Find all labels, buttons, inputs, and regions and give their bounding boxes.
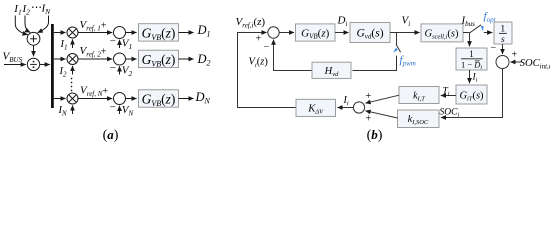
svg-text:Vref, 1+: Vref, 1+ — [80, 19, 107, 33]
wire V2 into summer S2a — [119, 66, 121, 74]
wire I2 into multiplier M2 — [72, 66, 74, 75]
svg-text:−: − — [264, 42, 270, 53]
svg-text:s: s — [501, 35, 505, 45]
svg-text:Di: Di — [337, 15, 348, 29]
svg-text:DN: DN — [195, 90, 211, 106]
bus bar — [51, 24, 54, 108]
wire block GVB2 to D2 — [179, 58, 194, 60]
wire junction down to block invD — [469, 33, 471, 47]
svg-text:⋯: ⋯ — [31, 1, 42, 13]
block kIsoc — [398, 110, 440, 128]
wire Gscell to junction — [463, 32, 470, 34]
block GVB2 — [139, 50, 179, 68]
svg-text:V1: V1 — [122, 38, 132, 52]
wire summer S3a to block GVB3 — [126, 98, 137, 100]
wire Gvd to Gscell — [390, 32, 420, 34]
svg-text:Ti: Ti — [443, 87, 450, 98]
block GVB3 — [139, 90, 179, 108]
svg-text:fpwm: fpwm — [400, 54, 416, 68]
summing junction S3b — [353, 102, 364, 113]
wire Vi branch down to sampler fpwm — [396, 33, 398, 45]
summing junction S3a — [114, 93, 126, 105]
svg-text:Vref, 2+: Vref, 2+ — [80, 45, 107, 59]
svg-text:−: − — [110, 62, 116, 74]
svg-text:Vref, N+: Vref, N+ — [80, 84, 108, 98]
block KdV — [296, 99, 336, 116]
block invD — [456, 48, 487, 71]
wire S3b to block KdV — [338, 107, 354, 109]
wire S2b down and left to block kIsoc — [441, 69, 503, 118]
svg-text:I1: I1 — [13, 3, 21, 16]
wire multiplier M3 to summer S3a — [78, 98, 112, 100]
divider circle — [27, 58, 39, 70]
wire V1 into summer S1a — [119, 40, 121, 48]
wire I1 into multiplier M1 — [72, 39, 74, 48]
block Gvd — [350, 23, 390, 43]
wire kIT to summer S3b — [366, 95, 400, 103]
svg-text:I2: I2 — [59, 66, 68, 79]
block GVB1 — [139, 24, 179, 42]
wire summer S2a to block GVB2 — [126, 58, 137, 60]
wire bus to multiplier row3 — [54, 98, 66, 100]
svg-text:GiT(s): GiT(s) — [459, 91, 484, 103]
wire bus to multiplier row2 — [54, 58, 66, 60]
wire block GVBb to block Gvd — [335, 32, 349, 34]
block Hvd — [312, 62, 351, 78]
svg-text:+: + — [366, 91, 372, 102]
block kIT — [399, 87, 439, 104]
svg-text:V2: V2 — [122, 65, 133, 79]
wire block GVB1 to D1 — [179, 32, 194, 34]
block Gscell — [421, 24, 463, 42]
svg-text:+: + — [256, 34, 262, 45]
summing junction S2b — [496, 56, 509, 69]
summing junction S1b — [268, 27, 279, 38]
svg-text:SOCi: SOCi — [440, 108, 460, 119]
svg-text:Vref,i(z): Vref,i(z) — [236, 16, 266, 30]
svg-text:(b): (b) — [367, 127, 383, 143]
wire I2 to summer — [25, 16, 30, 33]
wire SOCint to summer S2b — [511, 61, 522, 63]
wire multiplier M2 to summer S2a — [78, 58, 112, 60]
sampler fpwm arm — [396, 44, 401, 52]
wire summer S1b to block GVBb — [279, 32, 294, 34]
svg-text:1: 1 — [469, 49, 474, 59]
summing junction SA (current sum) — [27, 32, 40, 45]
svg-text:I1: I1 — [60, 39, 68, 52]
svg-text:VN: VN — [122, 104, 134, 118]
svg-text:Ii: Ii — [343, 95, 349, 107]
wire bus to multiplier row1 — [54, 32, 66, 34]
wire summer to divider — [33, 45, 35, 56]
vertical ellipsis between rows — [71, 78, 73, 92]
svg-text:IN: IN — [58, 105, 68, 118]
wire 1/s to summer S2b — [502, 44, 504, 54]
wire VBUS to divider — [4, 64, 26, 66]
block GVBb — [296, 24, 336, 41]
multiplier M1 — [67, 27, 78, 38]
svg-text:Ibus: Ibus — [461, 15, 476, 29]
svg-text:−: − — [110, 36, 116, 48]
svg-text:IN: IN — [41, 3, 52, 17]
summing junction S2a — [114, 53, 126, 65]
svg-text:−: − — [491, 43, 497, 54]
svg-text:Ii: Ii — [472, 73, 478, 84]
svg-text:SOCint,i: SOCint,i — [520, 58, 550, 71]
wire divider to bus — [40, 64, 50, 66]
block integrator 1/s — [494, 22, 512, 45]
wire kIsoc to summer S3b — [366, 111, 398, 118]
svg-text:VBUS: VBUS — [3, 51, 23, 65]
sampler fopt arm — [470, 25, 482, 33]
multiplier M2 — [67, 54, 78, 65]
svg-text:Vi(z): Vi(z) — [249, 57, 269, 70]
svg-text:D2: D2 — [197, 52, 211, 68]
sampler fpwm blue tick — [393, 48, 398, 53]
wire block GVB3 to DN — [179, 98, 194, 100]
wire sampler fopt to block 1/s — [484, 32, 493, 34]
wire sampler fpwm to block Hvd — [353, 56, 397, 71]
wire invD to block GiT — [469, 70, 471, 83]
sampler fopt blue tick — [481, 26, 484, 31]
wire KdV output loop to summer S1b — [238, 33, 297, 108]
wire VN into summer S3a — [119, 106, 121, 114]
summing junction S1a — [114, 27, 126, 39]
svg-text:Vi: Vi — [402, 15, 411, 29]
wire multiplier M1 to summer S1a — [78, 32, 112, 34]
wire GiT to block kIT — [441, 95, 456, 97]
wire IN into multiplier M3 — [72, 105, 74, 114]
wire IN to summer — [38, 16, 49, 33]
svg-text:I2: I2 — [22, 3, 31, 16]
svg-text:+: + — [512, 50, 518, 61]
svg-text:−: − — [110, 101, 116, 113]
svg-text:D1: D1 — [197, 23, 211, 39]
wire summer S1a to block GVB1 — [126, 32, 137, 34]
wire I1 to summer — [15, 16, 27, 35]
block GiT — [456, 85, 487, 104]
svg-text:+: + — [366, 114, 372, 125]
multiplier M3 — [67, 93, 78, 104]
wire Hvd feedback to summer S1b — [274, 40, 313, 71]
svg-text:(a): (a) — [103, 127, 119, 143]
